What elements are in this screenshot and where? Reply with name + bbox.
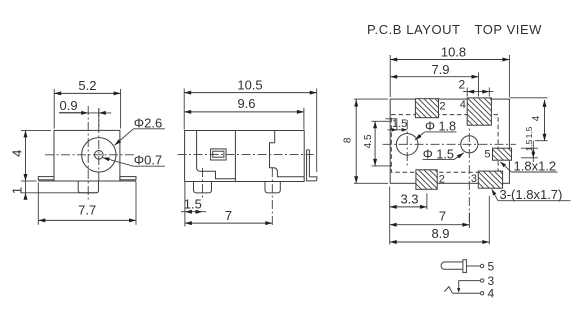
dim 9.6 [303, 108, 305, 130]
dim 8.9 [389, 187, 391, 245]
centerline pin vertical [98, 108, 100, 182]
svg-text:2: 2 [458, 78, 465, 92]
switch stem [458, 281, 460, 291]
svg-text:4: 4 [488, 287, 495, 301]
pin 5 lead [467, 265, 481, 267]
left side view [10, 78, 165, 225]
hole dia1.5 [461, 136, 478, 153]
window inner [213, 151, 224, 157]
svg-text:7: 7 [225, 208, 232, 223]
dim 1 [21, 192, 97, 194]
centerline hole1 [406, 120, 408, 168]
pad 5 [481, 148, 532, 160]
svg-text:0.9: 0.9 [60, 98, 78, 113]
left internal wall [196, 131, 198, 168]
right lug [120, 177, 136, 180]
flange bottom line [38, 180, 136, 182]
internal divider [234, 131, 236, 182]
svg-text:P.C.B LAYOUT: P.C.B LAYOUT [367, 22, 461, 37]
svg-text:7.7: 7.7 [78, 202, 96, 217]
svg-text:4: 4 [460, 99, 466, 111]
svg-text:TOP VIEW: TOP VIEW [475, 22, 543, 37]
svg-text:1.5: 1.5 [184, 197, 202, 212]
centerline horizontal [383, 143, 517, 145]
right leg [265, 182, 280, 193]
svg-text:8.9: 8.9 [431, 226, 449, 241]
svg-text:8: 8 [343, 137, 354, 143]
hole dia1.8 [396, 134, 418, 156]
left lug [38, 177, 54, 180]
bottom tab [78, 181, 98, 193]
svg-text:Φ2.6: Φ2.6 [134, 115, 162, 130]
left leg [194, 182, 212, 193]
svg-text:5: 5 [488, 260, 495, 274]
dim 0.9 [59, 112, 111, 114]
dim 7.7 [37, 183, 39, 225]
component dashed outline [391, 115, 498, 173]
svg-text:1.5: 1.5 [524, 126, 534, 138]
center pin barrel [441, 262, 463, 269]
centerline horizontal [45, 154, 135, 156]
pin 4 lead with spring contact [444, 287, 452, 294]
svg-text:7: 7 [439, 209, 446, 224]
svg-text:5: 5 [484, 149, 490, 161]
schematic symbols [441, 260, 494, 301]
front view [178, 78, 317, 227]
pad 4 [440, 98, 528, 125]
pcb layout top view [343, 22, 571, 245]
pin 3 lead [459, 280, 481, 282]
dim 4.5 [372, 120, 391, 122]
svg-text:7.9: 7.9 [431, 62, 449, 77]
svg-text:1.8x1.2: 1.8x1.2 [514, 159, 557, 174]
svg-text:3: 3 [471, 173, 477, 185]
dim 4 [21, 129, 51, 131]
svg-text:1: 1 [10, 187, 25, 194]
dim 1.5 [184, 182, 186, 227]
svg-text:5.2: 5.2 [78, 78, 96, 93]
svg-text:3-(1.8x1.7): 3-(1.8x1.7) [500, 187, 563, 202]
pcb outline [390, 99, 509, 183]
svg-text:4.5: 4.5 [363, 134, 374, 148]
body outline [54, 130, 120, 181]
svg-text:1.5: 1.5 [524, 139, 534, 151]
svg-text:Φ0.7: Φ0.7 [134, 153, 162, 168]
svg-text:10.5: 10.5 [237, 78, 262, 93]
right dims [510, 97, 548, 99]
pad 2 bottom [396, 170, 465, 190]
svg-text:4: 4 [531, 115, 542, 121]
svg-text:2: 2 [439, 174, 445, 186]
svg-text:3.3: 3.3 [400, 191, 418, 206]
centerline horizontal [178, 153, 314, 155]
dim 3.3 [426, 194, 428, 210]
dim 7 [468, 213, 470, 229]
dim 5.2 [53, 89, 55, 129]
left step [197, 168, 236, 179]
dim 7.9 [478, 73, 480, 97]
dim 7 [185, 222, 272, 224]
svg-text:2: 2 [440, 101, 446, 113]
side pin [306, 150, 308, 177]
pad 2 top [396, 99, 465, 118]
dim 2 [466, 88, 468, 97]
dim 10.5 [183, 89, 185, 130]
pin circle inner [95, 151, 104, 160]
body outline [185, 131, 305, 182]
svg-text:4: 4 [10, 150, 25, 157]
pad 3 [461, 171, 528, 188]
right internal shape [270, 131, 305, 177]
svg-text:9.6: 9.6 [237, 96, 255, 111]
centerline tab vertical [87, 106, 89, 200]
pin circle outer [82, 138, 116, 172]
centerline hole2 [468, 117, 470, 226]
dim 10.8 [389, 55, 391, 97]
svg-text:10.8: 10.8 [441, 45, 466, 60]
dim 8 [354, 98, 388, 100]
leg centerlines [202, 168, 204, 200]
window outer [211, 149, 227, 160]
svg-text:1.5: 1.5 [392, 118, 407, 130]
